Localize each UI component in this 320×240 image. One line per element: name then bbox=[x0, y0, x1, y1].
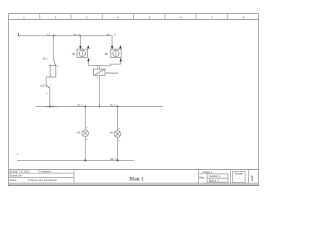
fuse/element box F1 bbox=[50, 65, 56, 77]
bus L1 (top potential line) bbox=[19, 35, 113, 37]
lamp H1 bbox=[84, 107, 86, 131]
bus L2 (middle potential line) bbox=[36, 106, 163, 108]
converter U1 (Umformer) bbox=[94, 69, 106, 75]
lamp H1 pin ticks bbox=[86, 127, 87, 129]
svg-text:Umformer: Umformer bbox=[106, 71, 118, 75]
node L1 label bbox=[47, 33, 56, 36]
wire: bus to B1 with down arrow bbox=[79, 36, 81, 50]
svg-text:Blatt: Blatt bbox=[200, 177, 205, 180]
svg-text:Blatt 1: Blatt 1 bbox=[129, 177, 144, 183]
junction dots on L2 bbox=[49, 106, 51, 108]
switch Q2 label bbox=[40, 84, 52, 87]
node Xp label (box B2 drop) bbox=[107, 33, 117, 36]
border frame bbox=[8, 14, 259, 186]
switch Q1 label bbox=[42, 57, 49, 60]
wire into converter bbox=[99, 66, 101, 70]
svg-text:1: 1 bbox=[250, 175, 254, 183]
bus L1 start tick bbox=[18, 33, 20, 36]
svg-text:Blattnr. 1: Blattnr. 1 bbox=[209, 179, 219, 182]
lamp H2 label bbox=[109, 131, 114, 134]
svg-text:Erstellt von: Erstellt von bbox=[10, 174, 23, 177]
box B2 label bbox=[104, 53, 109, 56]
Mp node label bbox=[110, 158, 118, 161]
lamp H2 bbox=[117, 107, 119, 131]
lamp H1 label bbox=[76, 131, 81, 134]
svg-text:Geändert: ..........: Geändert: .......... bbox=[41, 170, 60, 173]
wire: bus to B2 with down arrow bbox=[111, 36, 113, 50]
svg-text:Erstellt: 7.17.2013: Erstellt: 7.17.2013 bbox=[10, 170, 31, 173]
svg-text:Anlage 1: Anlage 1 bbox=[203, 171, 213, 174]
header column dividers bbox=[40, 14, 228, 20]
converter out pin tick bbox=[97, 77, 99, 79]
svg-text:Gesamt 1: Gesamt 1 bbox=[209, 175, 220, 178]
wire: Q2 to bus L2 bbox=[49, 88, 51, 106]
svg-text:Projekt wird bearbeitet: Projekt wird bearbeitet bbox=[28, 179, 57, 182]
switch Q1 blade bbox=[53, 59, 55, 65]
junction dot (red) bbox=[97, 65, 98, 66]
box B2 (meter) bbox=[111, 49, 122, 57]
terminal dots F1 bbox=[50, 65, 51, 66]
L2 node labels bbox=[45, 105, 58, 108]
pin tick bbox=[46, 92, 48, 94]
title block bbox=[9, 170, 249, 184]
header column numbers bbox=[23, 15, 244, 19]
junction dots on Mp bbox=[84, 159, 86, 161]
wire: B1 out with up arrow bbox=[87, 58, 89, 66]
node Xp label (box B1 drop) bbox=[73, 33, 81, 36]
svg-text:Name:: Name: bbox=[10, 179, 18, 182]
wire: fuse exit to switch Q2 bbox=[46, 77, 50, 85]
box B1 label bbox=[71, 53, 76, 56]
svg-text:Version: Version bbox=[235, 173, 244, 176]
box B1 (meter) bbox=[77, 49, 88, 57]
wire: drop to switch Q1 bbox=[52, 36, 54, 59]
wire: converter to bus L2 bbox=[98, 75, 100, 106]
up stub arrow at B1 bbox=[87, 45, 89, 49]
switch Q2 blade bbox=[46, 85, 50, 88]
bus Mp (bottom potential line) bbox=[17, 159, 134, 161]
up stub arrow at B2 bbox=[119, 45, 121, 49]
lamp H2 pin ticks bbox=[119, 128, 120, 130]
wire: B2 out with up arrow, route to converter bbox=[120, 58, 122, 65]
